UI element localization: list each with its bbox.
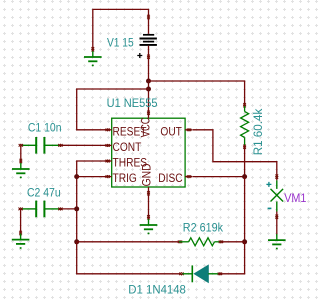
wire U1 GND pin to ground [148,195,150,220]
node junction B [146,87,151,92]
pin-end tick DISC [187,175,191,178]
voltmeter VM1 [271,180,284,211]
wire D1 right up to node [220,242,245,274]
pin-end tick gnd1 [91,47,94,51]
pin-end tick C2 right [58,208,62,211]
pin stub CONT [105,144,112,146]
wire C1 right to CONT [60,144,107,146]
pin-end tick D1 right [218,272,222,275]
svg-text:DISC: DISC [158,172,182,185]
battery V1 [140,35,157,45]
node junction C2 [74,206,79,211]
pin-end tick CONT [106,144,110,147]
svg-text:R2 619k: R2 619k [183,222,223,235]
wire VCC node to R1 top [149,81,245,106]
pin-end tick VM1 plus [275,175,278,179]
svg-text:U1 NE555: U1 NE555 [107,98,158,110]
pin-end tick R2 left [178,240,182,243]
node junction TRIG [74,174,79,179]
svg-text:R1 60.4k: R1 60.4k [251,109,265,156]
pin-end tick VM1 minus [275,215,278,219]
wire battery top loop [93,9,149,51]
svg-text:C1 10n: C1 10n [28,122,62,135]
pin stub DISC [185,176,192,178]
wire D1 loop left [77,242,181,274]
svg-text:D1 1N4148: D1 1N4148 [128,283,186,296]
pin-end tick R1 bottom [243,145,246,149]
svg-text:V1 15: V1 15 [107,37,134,50]
VM1 minus sign [268,207,272,209]
wire TRIG [77,176,107,178]
svg-text:VCC: VCC [140,117,153,137]
pin stub THRES [105,160,112,162]
svg-text:CONT: CONT [113,141,142,154]
wire R2 row left [77,241,179,243]
wire DISC to node [193,176,245,178]
pin-end tick R2 right [219,240,223,243]
wire battery bottom to VCC [148,46,150,114]
pin stub RESET [105,129,112,131]
wire RESET loop [77,89,149,130]
wire C1 left down to ground [20,145,22,163]
pin-end tick gnd2 [19,159,22,163]
pin-end tick TRIG [106,175,110,178]
wire VM1 minus to ground [276,212,278,236]
pin-end tick R1 top [243,103,246,107]
pin stub TRIG [105,176,112,178]
wire R2 right to node [221,241,245,243]
node junction DISC [242,174,247,179]
node junction R2 right [242,239,247,244]
op-amp U1 NE555 box [112,118,185,187]
resistor R1 [241,106,249,146]
pin-end tick battery bottom [147,55,150,59]
VM1 plus sign [266,182,271,187]
node junction A [146,79,151,84]
svg-text:GND: GND [141,163,154,186]
pin-end tick OUT [187,128,191,131]
capacitor C2 [21,201,60,218]
pin stub OUT [185,129,192,131]
wire DISC node down to R2 node [244,177,246,242]
pin-end tick C2 left corner [19,208,23,211]
wire THRES corner [77,161,107,242]
svg-text:VM1: VM1 [284,192,306,205]
pin-end tick C1 left corner [19,144,23,147]
capacitor C1 [21,137,60,154]
ground GND4 under U1 [140,219,158,234]
pin stub VCC [148,112,150,119]
wire C2 left down to ground [20,209,22,235]
svg-text:TRIG: TRIG [113,172,137,185]
diode D1 [183,265,220,282]
pin-end tick C1 right [58,144,62,147]
ground GND3 under C2 [12,234,30,249]
pin-end tick RESET [106,128,110,131]
pin-end tick THRES [106,160,110,163]
pin stub GND [148,187,150,195]
wire C2 right to node [60,208,77,210]
node junction R2 left [74,239,79,244]
pin-end tick GND [147,191,150,195]
pin-end tick VCC [147,111,150,115]
svg-text:C2 47u: C2 47u [27,187,61,200]
battery plus sign [137,53,142,58]
svg-text:OUT: OUT [160,126,182,139]
ground GND2 under C1 [12,163,30,178]
ground GND1 top-left [84,51,102,66]
pin-end tick D1 left [179,272,183,275]
resistor R2 [179,238,221,246]
wire R1 bottom to DISC node [244,146,246,177]
pin-end tick battery top [147,15,150,19]
pin-end tick gnd3 [19,231,22,235]
ground GND5 under VM1 [268,234,286,249]
wire OUT loop to VM1 [193,130,277,181]
pin-end tick gnd4 [147,215,150,219]
